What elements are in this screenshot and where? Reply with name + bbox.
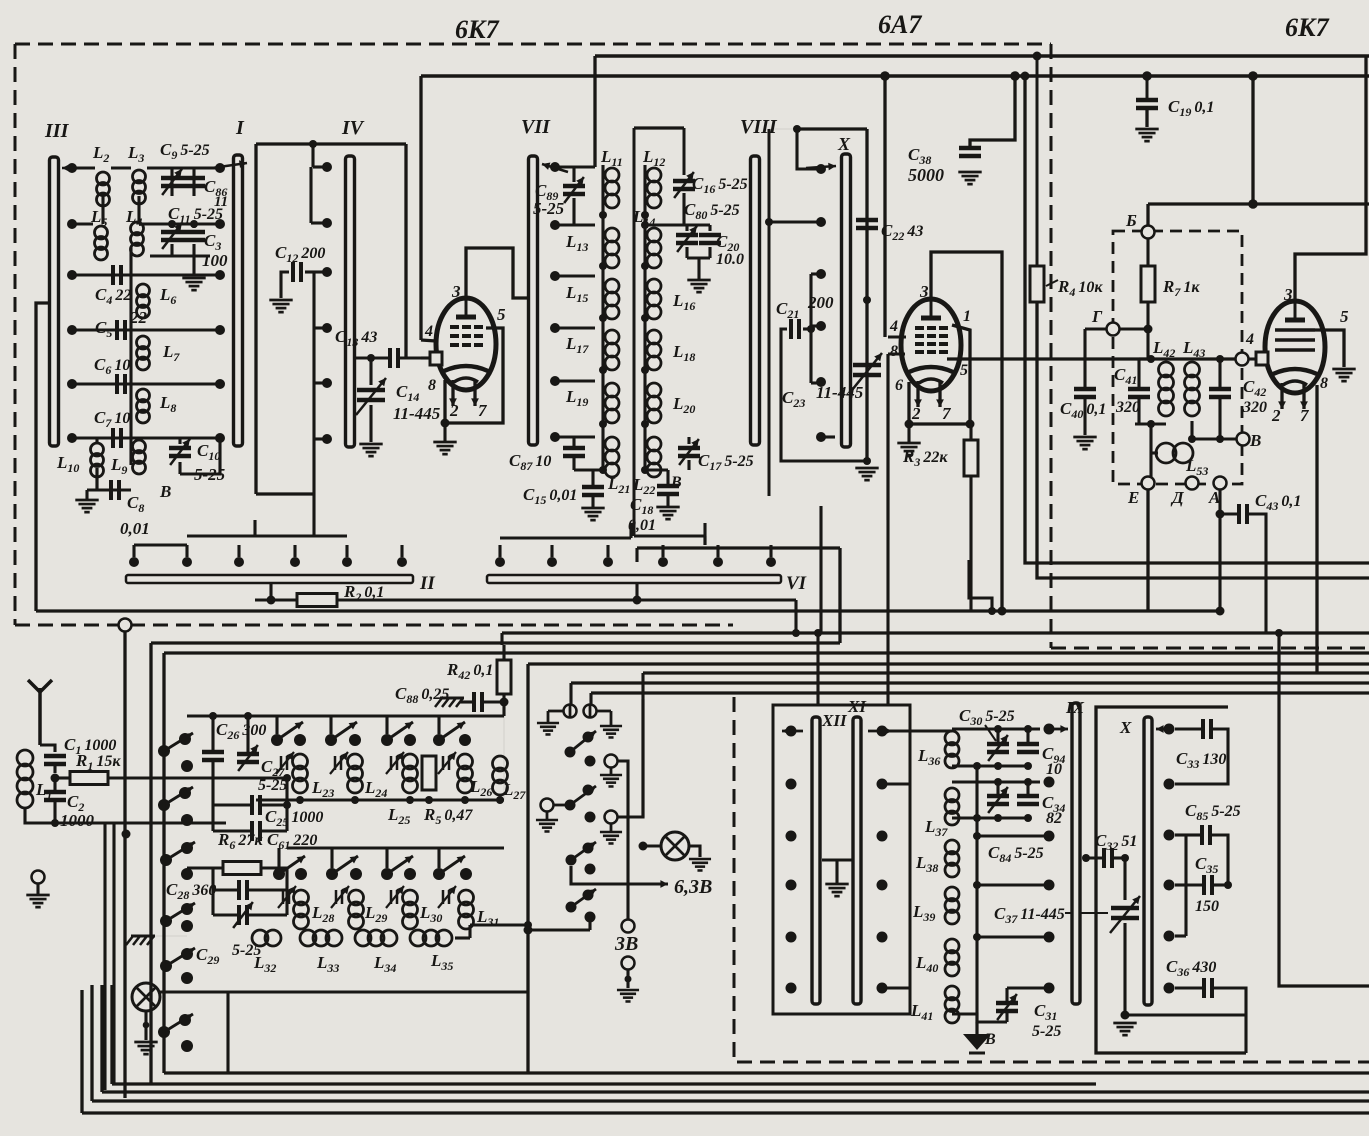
open node xyxy=(622,957,635,970)
ground xyxy=(75,499,98,502)
resistor R1 xyxy=(70,772,108,785)
bus VI dot 1 xyxy=(495,557,505,567)
wire xyxy=(1190,421,1193,439)
capacitor C12 xyxy=(291,262,295,282)
pin 1 wire xyxy=(952,325,970,424)
switch contact pair xyxy=(433,734,445,746)
wire xyxy=(404,144,407,358)
svg-text:6А7: 6А7 xyxy=(878,10,922,39)
switch arrow xyxy=(212,163,247,168)
contact dot wafer Xb xyxy=(1164,983,1175,994)
node xyxy=(863,457,871,465)
wire tank top xyxy=(1139,357,1148,360)
shield box dashed bottom edge xyxy=(15,624,733,627)
resistor R6 xyxy=(223,862,261,875)
wire xyxy=(1218,490,1221,514)
bus VI dot 5 xyxy=(713,557,723,567)
wire xyxy=(685,247,688,258)
svg-text:4: 4 xyxy=(1245,331,1254,348)
svg-text:1: 1 xyxy=(963,308,971,325)
wire tank1 top xyxy=(952,727,1040,730)
svg-text:R322к: R322к xyxy=(902,447,948,469)
wire node B feed xyxy=(1148,202,1369,205)
wire xyxy=(72,436,220,439)
lamp pilot xyxy=(132,983,160,1011)
svg-text:5-25: 5-25 xyxy=(533,199,565,218)
wire xyxy=(1125,1013,1246,1016)
svg-text:3: 3 xyxy=(1283,285,1293,304)
coil L26 xyxy=(458,754,473,769)
wire xyxy=(502,645,505,660)
svg-text:R410к: R410к xyxy=(1057,277,1103,299)
wire xyxy=(588,917,591,930)
coil L1 xyxy=(17,750,33,766)
wire xyxy=(572,457,575,470)
coil L24 xyxy=(348,754,363,769)
contact dot row6 wafer X xyxy=(816,432,826,442)
contact dot wafer XII xyxy=(786,779,797,790)
core adjust xyxy=(390,890,393,904)
node xyxy=(641,466,649,474)
coil L28 xyxy=(294,890,309,905)
ground xyxy=(1135,128,1158,131)
svg-text:VIII: VIII xyxy=(740,116,778,138)
wire bus b5 xyxy=(643,671,1369,674)
coil L31 xyxy=(459,890,474,905)
svg-text:3В: 3В xyxy=(614,933,638,955)
wire xyxy=(103,823,106,1090)
capacitor C5 xyxy=(115,320,119,340)
ground xyxy=(182,277,205,280)
contact dot row4 wafer III xyxy=(67,325,77,335)
wire frame top section IV xyxy=(256,142,406,145)
ground xyxy=(269,299,292,302)
ground xyxy=(433,441,456,444)
svg-text:В: В xyxy=(670,474,682,491)
svg-text:6,3В: 6,3В xyxy=(674,876,712,898)
svg-text:8: 8 xyxy=(890,343,898,360)
wire xyxy=(269,583,272,600)
wire xyxy=(1123,858,1126,900)
coil L3 xyxy=(133,170,146,183)
dashed bottom xyxy=(737,1061,1369,1064)
ground xyxy=(897,442,920,445)
hatch cap gnd xyxy=(440,697,464,700)
contact dot row1 wafer III xyxy=(67,163,77,173)
switch wafer VIII xyxy=(751,156,760,445)
ground xyxy=(958,171,981,174)
node xyxy=(351,796,359,804)
wire xyxy=(101,196,104,224)
contact pair xyxy=(585,756,596,767)
wire xyxy=(108,776,287,779)
node xyxy=(905,420,914,429)
wire xyxy=(254,144,257,494)
contact pair open xyxy=(541,799,554,812)
switch wafer XI xyxy=(853,717,861,1004)
switch arm 3 xyxy=(160,854,172,866)
contact dot xyxy=(181,760,193,772)
contact dot row6 wafer IV xyxy=(322,434,332,444)
wire xyxy=(95,438,98,443)
wire xyxy=(470,923,528,926)
coil L23 xyxy=(293,754,308,769)
capacitor C8 xyxy=(109,480,113,500)
wire xyxy=(72,166,95,169)
wire xyxy=(883,76,886,337)
contact dot xyxy=(181,920,193,932)
node xyxy=(1142,71,1152,81)
svg-text:10.0: 10.0 xyxy=(716,251,744,268)
wire xyxy=(555,274,595,277)
ground xyxy=(600,725,622,728)
coil L29 xyxy=(349,890,364,905)
node xyxy=(863,296,871,304)
resistor R5 xyxy=(422,756,436,790)
ground xyxy=(1332,368,1355,371)
grid cap square xyxy=(430,352,442,365)
wire anode xyxy=(466,248,527,298)
wire bus b1 xyxy=(502,631,1369,634)
svg-text:C150,01: C150,01 xyxy=(523,485,577,507)
svg-text:C305-25: C305-25 xyxy=(959,706,1015,728)
ground xyxy=(359,443,382,446)
wire xyxy=(1166,357,1242,360)
svg-text:3: 3 xyxy=(919,282,929,301)
coil L8 xyxy=(137,389,150,402)
capacitor C25 xyxy=(250,795,254,815)
wire xyxy=(1085,327,1107,330)
wire xyxy=(1146,204,1149,226)
wire xyxy=(170,244,173,256)
coil L11 xyxy=(605,168,619,182)
coil L5 xyxy=(95,226,108,239)
wire xyxy=(882,986,910,989)
svg-text:В: В xyxy=(1249,431,1261,450)
wire xyxy=(95,468,98,490)
bus II dot 2 xyxy=(182,557,192,567)
svg-text:5-25: 5-25 xyxy=(258,777,287,794)
wire top rail xyxy=(187,714,504,717)
contact dot wafer XII xyxy=(786,983,797,994)
trimmer C17 xyxy=(678,446,700,451)
wire xyxy=(144,1011,147,1040)
switch wafer IX xyxy=(1072,703,1080,1004)
wire xyxy=(455,936,470,939)
contact dot row6 wafer I xyxy=(215,433,225,443)
svg-text:2: 2 xyxy=(911,404,921,423)
trimmer C9 xyxy=(170,168,173,196)
coil L34 xyxy=(355,930,371,946)
capacitor C13 xyxy=(388,348,392,368)
wire xyxy=(1251,76,1254,204)
bus VI dot 3 xyxy=(603,557,613,567)
wire rail L6-L9 xyxy=(129,247,132,465)
wire bottom 3 xyxy=(102,1090,1369,1093)
box frame X section xyxy=(1096,707,1246,1053)
arrow 6.3V xyxy=(640,882,668,885)
ground xyxy=(134,1041,157,1044)
frame right xyxy=(526,664,529,1073)
wire xyxy=(112,823,115,1084)
svg-text:150: 150 xyxy=(1195,898,1219,915)
capacitor C19 xyxy=(1136,98,1158,103)
contact dot row5 wafer VII xyxy=(550,376,560,386)
svg-text:2: 2 xyxy=(1271,406,1281,425)
wire bottom rail L23 row xyxy=(256,798,504,801)
node xyxy=(1216,435,1224,443)
variable capacitor C37 xyxy=(1111,906,1139,911)
wire tank2 top xyxy=(952,780,1040,783)
svg-text:2: 2 xyxy=(449,401,459,420)
wire bus b3 xyxy=(164,651,1369,654)
wire tank1 bottom xyxy=(952,764,1028,767)
svg-text:5000: 5000 xyxy=(908,165,944,185)
ground solid xyxy=(963,1034,991,1050)
bus II dot 3 xyxy=(234,557,244,567)
wire xyxy=(1218,514,1221,611)
contact dot wafer XII xyxy=(786,726,797,737)
contact dot xyxy=(585,864,596,875)
contact dot row5 wafer IV xyxy=(322,378,332,388)
coil L20 xyxy=(647,383,661,397)
wire xyxy=(821,435,835,438)
coil L36 xyxy=(945,731,959,745)
wire xyxy=(110,985,113,1084)
svg-text:X: X xyxy=(1119,718,1132,737)
wire xyxy=(1036,56,1039,266)
ground xyxy=(1073,436,1096,439)
wire xyxy=(421,356,430,359)
bus II dot 4 xyxy=(290,557,300,567)
coil L30 xyxy=(403,890,418,905)
node E open xyxy=(1142,477,1155,490)
capacitor C22 xyxy=(856,218,878,223)
svg-text:320: 320 xyxy=(1242,399,1267,416)
svg-text:C95-25: C95-25 xyxy=(160,140,210,162)
switch wafer III xyxy=(50,157,59,446)
wire xyxy=(1007,986,1049,989)
contact dot row6 wafer VII xyxy=(550,432,560,442)
box frame xyxy=(773,705,910,1014)
svg-text:R115к: R115к xyxy=(75,751,121,773)
contact dot row2 wafer I xyxy=(215,219,225,229)
tube V2 6A7 xyxy=(901,299,961,391)
wire xyxy=(134,543,187,546)
bus bar VI xyxy=(487,575,781,583)
switch wafer X bottom xyxy=(1144,717,1152,1005)
switch arrow xyxy=(542,164,568,172)
contact dot xyxy=(181,814,193,826)
capacitor C3 xyxy=(183,230,205,235)
svg-text:0,01: 0,01 xyxy=(120,519,150,538)
contact dot row2 wafer III xyxy=(67,219,77,229)
wire xyxy=(593,56,596,167)
wire rail L36col xyxy=(975,766,978,1034)
wire bus b7 xyxy=(591,691,1369,694)
svg-text:C175-25: C175-25 xyxy=(698,451,754,473)
contact dot wafer Xb xyxy=(1164,724,1175,735)
pin 4 wire xyxy=(421,340,436,341)
coil L22 xyxy=(647,437,661,451)
switch arm xyxy=(566,902,577,913)
wire grid lead xyxy=(888,335,906,338)
ground xyxy=(600,831,622,834)
wire xyxy=(147,166,220,169)
wire xyxy=(72,382,220,385)
wire xyxy=(503,716,505,800)
coil L37 xyxy=(945,788,959,802)
tube V3 6K7 xyxy=(1265,301,1325,393)
switch contact pair xyxy=(325,734,337,746)
coil L4 xyxy=(131,222,144,235)
wire xyxy=(569,683,572,705)
wire xyxy=(187,534,347,537)
contact dot row3 wafer IV xyxy=(322,267,332,277)
switch arm 5 xyxy=(160,960,172,972)
wire xyxy=(460,700,474,703)
wire xyxy=(211,761,214,805)
coil L15 xyxy=(605,279,619,293)
capacitor C4 xyxy=(111,265,115,285)
core adjust xyxy=(282,890,285,904)
node xyxy=(1147,355,1155,363)
svg-text:III: III xyxy=(44,120,70,142)
capacitor C34 xyxy=(1017,794,1039,799)
wire xyxy=(626,969,629,988)
coil L17 xyxy=(605,330,619,344)
ground xyxy=(536,819,558,822)
switch contact pair xyxy=(273,868,285,880)
wire xyxy=(635,583,638,600)
svg-text:C3711-445: C3711-445 xyxy=(994,904,1065,926)
svg-text:R627к: R627к xyxy=(217,830,263,852)
trimmer C89 xyxy=(563,184,585,189)
switch wafer VII xyxy=(529,156,538,445)
svg-text:C165-25: C165-25 xyxy=(692,174,748,196)
svg-text:5: 5 xyxy=(1340,307,1349,326)
node 4 open xyxy=(1236,353,1249,366)
contact dot row3 wafer X xyxy=(816,269,826,279)
coil L40 xyxy=(945,939,959,953)
resistor R2 xyxy=(297,594,337,607)
contact dot wafer XI xyxy=(877,831,888,842)
svg-text:В: В xyxy=(159,482,171,501)
wire xyxy=(797,129,821,169)
coil L19 xyxy=(605,383,619,397)
contact dot row2 wafer VII xyxy=(550,220,560,230)
grid square V3 xyxy=(1256,352,1268,365)
wire xyxy=(211,868,214,915)
switch arm 1 xyxy=(158,745,170,757)
node V open xyxy=(1237,433,1250,446)
node xyxy=(309,140,317,148)
ground xyxy=(689,858,711,861)
wire xyxy=(703,523,706,545)
capacitor C85 xyxy=(1200,825,1204,845)
wire bottom 4 xyxy=(92,1099,1369,1102)
coil L35 xyxy=(410,930,426,946)
resistor R7 xyxy=(1141,266,1155,302)
bus II dot 1 xyxy=(129,557,139,567)
wire xyxy=(882,782,910,785)
coil L18 xyxy=(647,330,661,344)
wire trio rail xyxy=(1184,835,1187,936)
wire bottom 2 xyxy=(112,1082,1096,1085)
svg-text:Б: Б xyxy=(1125,211,1137,230)
wire bus b6 xyxy=(571,681,1369,684)
wire xyxy=(1146,238,1149,266)
pin 5 wire xyxy=(445,328,503,423)
wire xyxy=(643,844,661,847)
svg-text:Д: Д xyxy=(1170,488,1185,507)
svg-text:82: 82 xyxy=(1046,810,1062,827)
node xyxy=(641,221,649,229)
wire xyxy=(865,129,868,462)
node xyxy=(1216,355,1224,363)
wire 6.3V xyxy=(571,866,660,884)
wire xyxy=(1146,302,1149,359)
wire xyxy=(555,165,595,168)
coil L10 xyxy=(91,443,104,456)
wire drops L28 row xyxy=(277,848,280,868)
wire rail L12 column xyxy=(643,165,646,470)
resistor R4 xyxy=(1030,266,1044,302)
ground xyxy=(855,467,878,470)
contact dot row1 wafer IV xyxy=(322,162,332,172)
coil L21 xyxy=(605,437,619,451)
ground xyxy=(581,507,604,510)
svg-text:320: 320 xyxy=(1115,399,1140,416)
contact dot wafer XII xyxy=(786,932,797,943)
capacitor C2 xyxy=(44,790,66,795)
node xyxy=(190,220,198,228)
capacitor C18 xyxy=(657,484,679,489)
wire top frame VII-VIII xyxy=(634,126,684,129)
switch arrow xyxy=(782,730,803,733)
capacitor C32 xyxy=(1102,848,1106,868)
wire xyxy=(137,196,140,222)
wire A-return xyxy=(36,609,1220,612)
wire xyxy=(555,223,595,226)
coil L16 xyxy=(647,279,661,293)
dashed osc box xyxy=(1113,231,1242,484)
capacitor C21 xyxy=(789,319,793,339)
contact dot wafer Xb xyxy=(1164,931,1175,942)
switch wafer X top xyxy=(842,154,851,447)
node xyxy=(168,220,176,228)
wire xyxy=(555,379,595,382)
contact dot IX-4 xyxy=(1044,880,1055,891)
contact pair open xyxy=(564,705,577,718)
svg-text:XI: XI xyxy=(847,697,867,716)
screen bus wire xyxy=(421,74,1369,78)
switch arm 4 xyxy=(160,915,172,927)
wire rail top L28 row xyxy=(287,846,504,849)
wire xyxy=(309,167,312,223)
contact dot row5 wafer X xyxy=(816,377,826,387)
coil L25 xyxy=(403,754,418,769)
bus VI dot 6 xyxy=(766,557,776,567)
capacitor C87 xyxy=(563,446,585,451)
node xyxy=(599,466,607,474)
switch arrow xyxy=(806,166,836,168)
wire xyxy=(72,273,220,276)
switch arrow xyxy=(1156,728,1172,731)
capacitor C42 xyxy=(1209,387,1231,392)
svg-text:4: 4 xyxy=(889,318,898,335)
svg-text:4: 4 xyxy=(424,323,433,340)
